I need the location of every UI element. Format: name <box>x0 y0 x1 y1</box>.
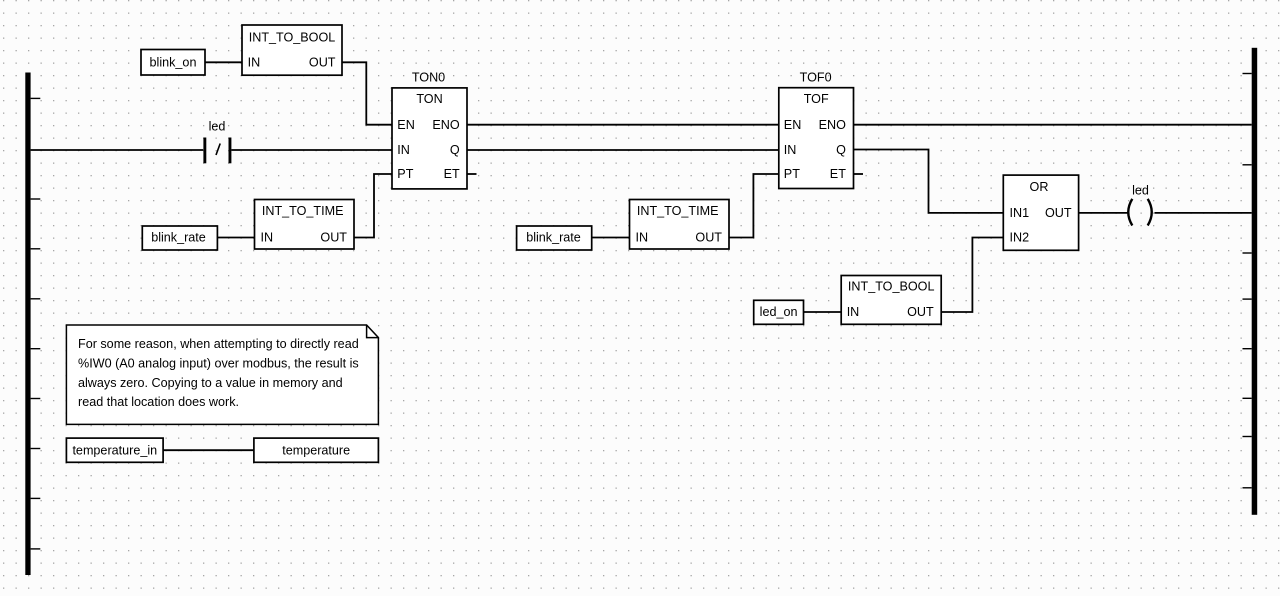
svg-text:ENO: ENO <box>432 118 459 132</box>
svg-text:led_on: led_on <box>760 305 798 319</box>
svg-text:OUT: OUT <box>907 305 934 319</box>
svg-text:%IW0 (A0 analog input) over mo: %IW0 (A0 analog input) over modbus, the … <box>78 357 359 371</box>
svg-text:PT: PT <box>784 167 800 181</box>
svg-text:ET: ET <box>830 167 846 181</box>
svg-text:ENO: ENO <box>819 118 846 132</box>
svg-text:OUT: OUT <box>695 231 722 245</box>
svg-text:IN: IN <box>847 305 860 319</box>
svg-text:EN: EN <box>397 118 415 132</box>
svg-text:TON: TON <box>416 92 442 106</box>
svg-text:OUT: OUT <box>1045 206 1072 220</box>
svg-text:led: led <box>209 120 226 134</box>
svg-text:ET: ET <box>444 167 460 181</box>
svg-text:Q: Q <box>450 143 460 157</box>
svg-text:IN: IN <box>397 143 410 157</box>
svg-text:TOF0: TOF0 <box>800 70 832 84</box>
svg-text:always zero. Copying to a valu: always zero. Copying to a value in memor… <box>78 376 343 390</box>
svg-text:EN: EN <box>784 118 802 132</box>
svg-text:blink_rate: blink_rate <box>151 231 206 245</box>
svg-text:OUT: OUT <box>320 231 347 245</box>
svg-text:blink_rate: blink_rate <box>526 231 581 245</box>
svg-text:IN: IN <box>261 231 274 245</box>
svg-text:IN1: IN1 <box>1010 206 1030 220</box>
svg-text:IN: IN <box>784 143 797 157</box>
svg-text:IN: IN <box>248 56 261 70</box>
svg-text:Q: Q <box>836 143 846 157</box>
svg-text:OR: OR <box>1030 180 1049 194</box>
svg-text:OUT: OUT <box>309 56 336 70</box>
svg-text:TOF: TOF <box>804 92 829 106</box>
svg-text:INT_TO_TIME: INT_TO_TIME <box>637 204 719 218</box>
svg-text:INT_TO_TIME: INT_TO_TIME <box>262 204 344 218</box>
svg-text:PT: PT <box>397 167 413 181</box>
svg-text:IN: IN <box>636 231 649 245</box>
svg-text:temperature_in: temperature_in <box>72 443 157 457</box>
svg-text:For some reason, when attempti: For some reason, when attempting to dire… <box>78 337 359 351</box>
svg-text:IN2: IN2 <box>1010 231 1030 245</box>
svg-text:TON0: TON0 <box>412 70 445 84</box>
svg-text:INT_TO_BOOL: INT_TO_BOOL <box>249 31 336 45</box>
svg-text:blink_on: blink_on <box>150 56 197 70</box>
svg-text:read that location does work.: read that location does work. <box>78 395 239 409</box>
svg-text:temperature: temperature <box>282 443 350 457</box>
svg-text:INT_TO_BOOL: INT_TO_BOOL <box>848 280 935 294</box>
svg-text:led: led <box>1132 184 1149 198</box>
